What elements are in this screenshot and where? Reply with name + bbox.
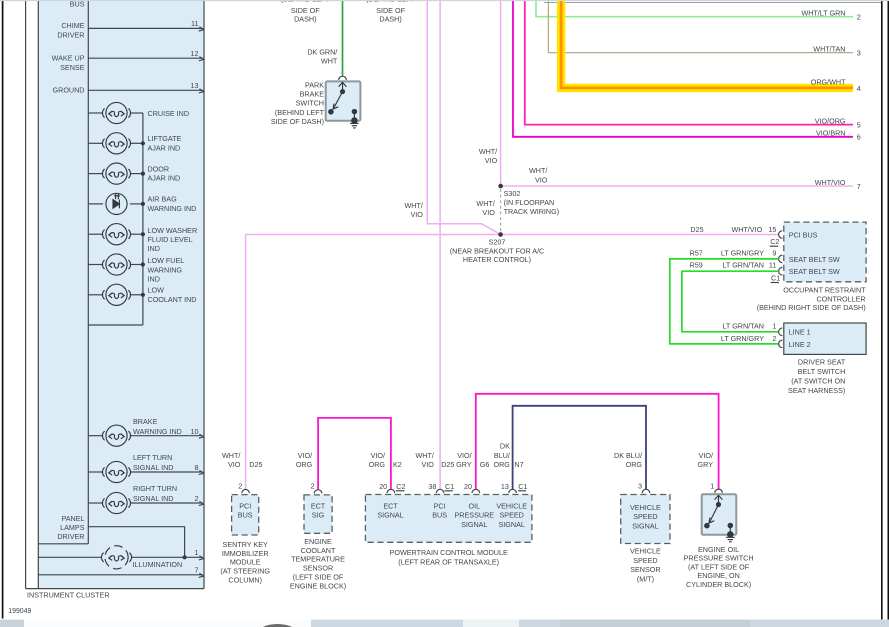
svg-text:FLUID LEVEL: FLUID LEVEL [148,235,193,244]
svg-text:VIO: VIO [411,210,424,219]
svg-text:199049: 199049 [8,608,31,615]
svg-text:10: 10 [191,427,199,436]
svg-text:2: 2 [238,482,242,491]
svg-text:ORG/WHT: ORG/WHT [811,78,846,87]
svg-text:7: 7 [857,182,861,191]
svg-text:ORG: ORG [369,460,386,469]
svg-text:WHT/: WHT/ [222,451,240,460]
svg-text:TRACK WIRING): TRACK WIRING) [504,207,559,216]
svg-text:DASH): DASH) [379,15,401,24]
svg-text:SIGNAL: SIGNAL [377,511,403,520]
svg-text:11: 11 [769,261,776,270]
svg-text:VIO/: VIO/ [457,451,471,460]
svg-text:C1: C1 [445,482,454,491]
svg-text:LIFTGATE: LIFTGATE [148,134,182,143]
svg-text:WHT/: WHT/ [529,166,547,175]
svg-text:C2: C2 [396,482,405,491]
svg-text:(NEAR BREAKOUT FOR A/C: (NEAR BREAKOUT FOR A/C [450,246,545,255]
svg-text:(AT LEFT SIDE OF: (AT LEFT SIDE OF [688,562,750,571]
svg-text:ENGINE BLOCK): ENGINE BLOCK) [290,581,346,590]
svg-text:WHT: WHT [321,57,338,66]
svg-text:WARNING: WARNING [148,265,183,274]
svg-text:LOW WASHER: LOW WASHER [148,226,198,235]
svg-text:SIGNAL IND: SIGNAL IND [133,494,173,503]
svg-text:LT GRN/TAN: LT GRN/TAN [722,261,764,270]
svg-text:DRIVER: DRIVER [57,532,84,541]
svg-text:WHT/LT GRN: WHT/LT GRN [801,9,845,18]
svg-text:ENGINE: ENGINE [304,537,332,546]
svg-text:SIGNAL: SIGNAL [461,520,487,529]
svg-text:(BEHIND LEFT: (BEHIND LEFT [275,108,325,117]
svg-text:WHT/VIO: WHT/VIO [731,225,762,234]
svg-text:SIDE OF: SIDE OF [291,6,320,15]
svg-text:2: 2 [311,482,315,491]
svg-text:HEATER CONTROL): HEATER CONTROL) [463,255,531,264]
svg-text:BUS: BUS [70,0,85,8]
svg-text:ENGINE OIL: ENGINE OIL [698,545,739,554]
svg-text:13: 13 [501,482,509,491]
svg-text:AJAR IND: AJAR IND [148,174,181,183]
svg-text:BUS: BUS [432,511,447,520]
svg-text:OCCUPANT RESTRAINT: OCCUPANT RESTRAINT [783,286,866,295]
svg-text:C1: C1 [518,482,527,491]
svg-text:R57: R57 [690,249,703,258]
svg-text:SIG: SIG [312,511,325,520]
svg-text:VIO/ORG: VIO/ORG [815,117,846,126]
svg-text:38: 38 [428,482,436,491]
svg-text:WHT/: WHT/ [405,201,423,210]
svg-text:CHIME: CHIME [61,21,84,30]
svg-text:S207: S207 [489,238,506,247]
svg-text:VIO: VIO [482,208,495,217]
svg-text:SEAT HARNESS): SEAT HARNESS) [788,386,845,395]
svg-text:SIGNAL IND: SIGNAL IND [133,463,173,472]
svg-text:COOLANT: COOLANT [301,546,336,555]
svg-text:PCI: PCI [239,502,251,511]
svg-text:LINE 1: LINE 1 [789,328,811,337]
svg-text:1: 1 [772,322,776,331]
svg-text:1: 1 [195,548,199,557]
svg-text:IMMOBILIZER: IMMOBILIZER [222,549,269,558]
svg-text:VIO/BRN: VIO/BRN [816,129,846,138]
svg-text:DRIVER SEAT: DRIVER SEAT [798,358,846,367]
svg-text:(IN FLOORPAN: (IN FLOORPAN [504,198,555,207]
svg-text:SWITCH: SWITCH [296,99,324,108]
svg-text:C2: C2 [770,237,779,246]
svg-text:SIGNAL: SIGNAL [632,521,658,530]
svg-text:(M/T): (M/T) [637,575,654,584]
svg-text:SPEED: SPEED [633,556,657,565]
svg-text:BELT SWITCH: BELT SWITCH [798,367,846,376]
svg-text:20: 20 [464,482,472,491]
svg-text:COLUMN): COLUMN) [228,576,262,585]
svg-text:SIGNAL: SIGNAL [499,520,525,529]
svg-text:ILLUMINATION: ILLUMINATION [132,560,182,569]
svg-text:VIO: VIO [535,175,548,184]
svg-text:ECT: ECT [383,502,398,511]
svg-text:DOOR: DOOR [148,164,170,173]
svg-text:WHT/: WHT/ [416,451,434,460]
svg-text:(AT STEERING: (AT STEERING [220,567,270,576]
svg-text:WAKE UP: WAKE UP [52,53,85,62]
svg-text:(AT SWITCH ON: (AT SWITCH ON [791,377,845,386]
svg-text:VIO/: VIO/ [298,451,312,460]
svg-text:DK GRN/: DK GRN/ [307,47,337,56]
svg-text:INSTRUMENT CLUSTER: INSTRUMENT CLUSTER [27,590,110,599]
svg-text:7: 7 [195,566,199,575]
svg-text:OIL: OIL [469,502,481,511]
svg-text:SEAT BELT SW: SEAT BELT SW [789,267,840,276]
svg-text:BRAKE: BRAKE [133,417,158,426]
svg-text:VIO: VIO [485,156,498,165]
svg-text:LEFT TURN: LEFT TURN [133,453,172,462]
svg-text:S302: S302 [504,189,521,198]
svg-text:2: 2 [772,334,776,343]
svg-text:VEHICLE: VEHICLE [630,546,661,555]
svg-text:AJAR IND: AJAR IND [148,143,181,152]
svg-text:PARK: PARK [305,81,324,90]
svg-text:VIO: VIO [228,460,241,469]
svg-text:AIR BAG: AIR BAG [148,195,178,204]
svg-text:WHT/TAN: WHT/TAN [813,45,845,54]
svg-text:(LEFT REAR OF TRANSAXLE): (LEFT REAR OF TRANSAXLE) [398,558,499,567]
svg-text:VIO: VIO [422,460,435,469]
svg-text:SPEED: SPEED [633,512,657,521]
svg-text:GRY: GRY [456,460,472,469]
svg-text:CONTROLLER: CONTROLLER [816,294,865,303]
svg-text:C1: C1 [771,274,780,283]
svg-text:9: 9 [772,249,776,258]
svg-text:VEHICLE: VEHICLE [496,502,527,511]
svg-text:WARNING IND: WARNING IND [148,204,197,213]
svg-text:G6: G6 [480,460,490,469]
svg-text:PCI: PCI [434,502,446,511]
svg-text:SIDE OF: SIDE OF [376,6,405,15]
svg-text:12: 12 [191,49,199,58]
svg-text:LAMPS: LAMPS [60,523,85,532]
svg-text:CRUISE IND: CRUISE IND [148,109,190,118]
svg-text:BRAKE: BRAKE [300,90,325,99]
svg-text:LT GRN/GRY: LT GRN/GRY [721,249,764,258]
svg-text:PRESSURE: PRESSURE [455,511,495,520]
svg-text:MODULE: MODULE [230,558,261,567]
svg-text:5: 5 [857,120,861,129]
svg-text:PRESSURE SWITCH: PRESSURE SWITCH [684,554,754,563]
svg-text:LT GRN/GRY: LT GRN/GRY [721,334,764,343]
svg-text:CYLINDER BLOCK): CYLINDER BLOCK) [686,580,751,589]
svg-text:3: 3 [857,48,861,57]
svg-text:6: 6 [857,133,861,142]
svg-text:VIO/: VIO/ [371,451,385,460]
svg-text:SEAT BELT SW: SEAT BELT SW [789,255,840,264]
svg-text:K2: K2 [393,460,402,469]
svg-text:LT GRN/TAN: LT GRN/TAN [722,322,764,331]
svg-text:GRY: GRY [698,460,714,469]
svg-text:SENTRY KEY: SENTRY KEY [223,540,268,549]
svg-text:PCI BUS: PCI BUS [789,230,818,239]
svg-text:IND: IND [148,244,160,253]
svg-text:RIGHT TURN: RIGHT TURN [133,484,177,493]
svg-text:1: 1 [710,482,714,491]
svg-text:DK BLU/: DK BLU/ [614,451,642,460]
svg-text:DK: DK [500,442,510,451]
svg-text:ECT: ECT [311,502,326,511]
svg-text:D25: D25 [249,460,262,469]
svg-text:4: 4 [857,84,861,93]
svg-text:WARNING IND: WARNING IND [133,427,182,436]
svg-text:SENSOR: SENSOR [303,564,333,573]
svg-text:3: 3 [638,482,642,491]
svg-text:PANEL: PANEL [61,514,84,523]
svg-text:ENGINE, ON: ENGINE, ON [697,571,739,580]
svg-text:LOW FUEL: LOW FUEL [148,256,185,265]
svg-text:LOW: LOW [148,286,165,295]
svg-text:WHT/: WHT/ [476,199,494,208]
svg-text:WHT/: WHT/ [479,147,497,156]
svg-text:N7: N7 [514,460,523,469]
svg-text:POWERTRAIN CONTROL MODULE: POWERTRAIN CONTROL MODULE [390,548,508,557]
svg-text:R59: R59 [690,261,703,270]
svg-text:SENSOR: SENSOR [630,565,660,574]
svg-text:BLU/: BLU/ [494,451,510,460]
svg-text:(BEHIND RIGHT SIDE OF DASH): (BEHIND RIGHT SIDE OF DASH) [757,303,866,312]
svg-text:(LEFT SIDE OF: (LEFT SIDE OF [293,573,344,582]
svg-text:DRIVER: DRIVER [57,31,84,40]
svg-text:13: 13 [191,81,199,90]
svg-text:11: 11 [191,19,198,28]
svg-text:ORG: ORG [296,460,313,469]
svg-text:ORG: ORG [626,460,643,469]
svg-text:8: 8 [195,463,199,472]
svg-text:ORG: ORG [494,460,511,469]
svg-text:2: 2 [195,494,199,503]
svg-text:D25: D25 [690,225,703,234]
svg-text:2: 2 [857,12,861,21]
svg-text:LINE 2: LINE 2 [789,340,811,349]
svg-text:IND: IND [148,275,160,284]
svg-text:SENSE: SENSE [60,63,85,72]
svg-text:TEMPERATURE: TEMPERATURE [291,555,345,564]
svg-text:COOLANT IND: COOLANT IND [148,295,197,304]
svg-text:DASH): DASH) [294,15,316,24]
svg-text:BUS: BUS [238,511,253,520]
svg-text:20: 20 [379,482,387,491]
svg-text:SPEED: SPEED [500,511,524,520]
svg-text:WHT/VIO: WHT/VIO [815,178,846,187]
svg-text:D25: D25 [441,460,454,469]
svg-text:GROUND: GROUND [53,86,85,95]
svg-text:VEHICLE: VEHICLE [630,503,661,512]
svg-text:15: 15 [768,225,776,234]
svg-text:VIO/: VIO/ [699,451,713,460]
svg-text:SIDE OF DASH): SIDE OF DASH) [271,117,324,126]
